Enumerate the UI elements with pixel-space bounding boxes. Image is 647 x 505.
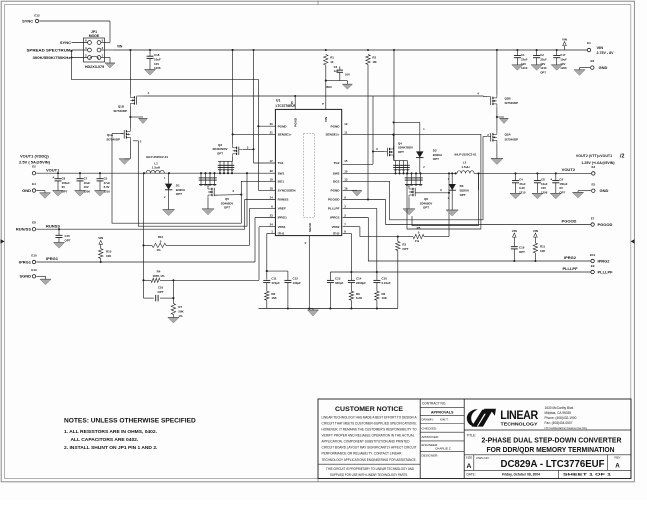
svg-text:LINEAR: LINEAR [500,408,538,422]
svg-text:VOUT1: VOUT1 [46,167,60,172]
svg-text:VREF: VREF [278,207,286,211]
svg-text:B320A: B320A [176,188,186,192]
svg-text:OPT: OPT [224,206,230,210]
svg-text:GND: GND [599,65,608,70]
svg-text:OPT: OPT [402,247,408,251]
svg-text:THIS CIRCUIT IS PROPRIETARY TO: THIS CIRCUIT IS PROPRIETARY TO LINEAR TE… [326,467,415,471]
svg-text:6.3V: 6.3V [519,186,525,190]
svg-text:PGND: PGND [331,189,341,193]
svg-text:E6: E6 [590,59,594,63]
svg-text:22: 22 [270,169,274,173]
svg-text:DRAWN:: DRAWN: [422,418,434,422]
svg-text:SW2: SW2 [333,172,340,176]
svg-text:APPROVED:: APPROVED: [422,435,440,439]
svg-text:25: 25 [290,101,294,105]
svg-text:PGOOD: PGOOD [598,222,613,227]
svg-text:10uF: 10uF [541,182,548,186]
svg-text:C14: C14 [356,276,362,280]
svg-text:+: + [52,175,54,179]
svg-text:1210: 1210 [540,66,547,70]
svg-text:SIZE: SIZE [466,455,472,459]
svg-text:PGND: PGND [294,117,298,127]
svg-text:E2: E2 [32,165,36,169]
svg-text:VOUT1 (VDDQ): VOUT1 (VDDQ) [20,153,49,158]
svg-text:Fax: (408)434-0507: Fax: (408)434-0507 [545,421,573,425]
svg-text:PLLLPF: PLLLPF [598,269,614,274]
svg-text:IPRG1: IPRG1 [19,259,32,264]
svg-text:TG2: TG2 [333,161,339,165]
svg-text:2.5V ( 5A@5VIN): 2.5V ( 5A@5VIN) [19,160,51,165]
svg-text:PGND: PGND [331,124,341,128]
svg-text:OPT: OPT [398,150,404,154]
svg-text:C19: C19 [519,246,525,250]
svg-text:R6: R6 [382,292,386,296]
svg-text:1.5uH: 1.5uH [152,166,160,170]
svg-text:SW1: SW1 [278,171,285,175]
svg-text:1.5uH: 1.5uH [461,165,469,169]
svg-text:TECHNOLOGY APPLICATIONS ENGINE: TECHNOLOGY APPLICATIONS ENGINEERING FOR … [322,458,417,462]
svg-text:VIN: VIN [533,229,538,233]
svg-text:22uF: 22uF [540,57,547,61]
svg-text:CHECKED:: CHECKED: [422,426,438,430]
svg-text:10uF: 10uF [84,181,91,185]
svg-text:SPREAD SPECTRUM: SPREAD SPECTRUM [27,47,72,52]
svg-text:VFB1: VFB1 [278,225,286,229]
svg-text:VIN: VIN [117,44,123,48]
svg-text:C13: C13 [335,276,341,280]
svg-text:R2: R2 [372,56,376,60]
svg-text:6.2K: 6.2K [356,296,363,300]
svg-text:15: 15 [344,159,348,163]
svg-text:C10: C10 [382,276,388,280]
svg-text:VIN: VIN [324,116,328,122]
svg-text:E13: E13 [31,268,37,272]
svg-text:E7: E7 [591,216,595,220]
svg-text:47uF: 47uF [519,182,526,186]
svg-text:IPRG2: IPRG2 [598,258,611,263]
svg-text:APPLICATION. COMPONENT SUBSTIT: APPLICATION. COMPONENT SUBSTITUTION AND … [322,440,411,444]
svg-text:0.01uF: 0.01uF [382,281,391,285]
svg-text:RUN/SS: RUN/SS [16,227,31,232]
svg-text:11: 11 [344,130,347,134]
svg-text:1206: 1206 [560,66,567,70]
svg-text:OPT: OPT [65,239,71,243]
svg-text:2. INSTALL SHUNT ON JP1 PIN 1: 2. INSTALL SHUNT ON JP1 PIN 1 AND 2. [64,445,158,451]
svg-text:C9: C9 [559,177,563,181]
svg-text:SGND: SGND [308,222,312,232]
svg-text:10V: 10V [84,185,89,189]
svg-text:2.75V - 8V: 2.75V - 8V [597,51,615,55]
svg-text:1uF: 1uF [334,69,339,73]
svg-text:VIN: VIN [512,229,517,233]
svg-text:16: 16 [344,186,348,190]
svg-text:PLLLPF: PLLLPF [328,207,340,211]
svg-text:CUSTOMER NOTICE: CUSTOMER NOTICE [335,407,403,413]
svg-text:SENSE1+: SENSE1+ [278,133,292,137]
svg-text:OPT: OPT [519,250,525,254]
svg-text:330pF: 330pF [335,281,344,285]
svg-text:DWG NO.: DWG NO. [477,456,490,460]
svg-text:14: 14 [270,196,274,200]
svg-text:LTC Confidential-For Customer: LTC Confidential-For Customer Use Only [545,427,588,430]
svg-text:E3: E3 [591,165,595,169]
svg-text:PERFORMANCE OR RELIABILITY. C: PERFORMANCE OR RELIABILITY. CONTACT LINE… [322,452,403,456]
svg-text:D2: D2 [433,148,437,152]
svg-text:D1: D1 [176,183,180,187]
svg-text:E11: E11 [590,253,596,257]
svg-text:1%: 1% [156,248,161,252]
svg-text:IPRG2: IPRG2 [330,216,340,220]
svg-text:BG1: BG1 [278,180,285,184]
svg-text:6V: 6V [62,185,66,189]
svg-text:A: A [467,463,472,470]
svg-text:19: 19 [270,177,274,181]
svg-text:1%: 1% [415,239,420,243]
svg-text:CIRCUIT BOARD LAYOUT MAY SIGNI: CIRCUIT BOARD LAYOUT MAY SIGNIFICANTLY A… [322,446,417,450]
svg-text:21: 21 [270,130,274,134]
svg-text:0603: 0603 [325,85,332,89]
svg-text:Friday, October 08, 2004: Friday, October 08, 2004 [502,473,540,477]
svg-text:CIRCUIT THAT MEETS CUSTOMER-SU: CIRCUIT THAT MEETS CUSTOMER-SUPPLIED SPE… [322,421,417,425]
svg-text:DATE:: DATE: [467,473,476,477]
svg-text:1%: 1% [178,314,183,318]
svg-text:20: 20 [270,122,274,126]
svg-text:IHLP-2525CZ-01: IHLP-2525CZ-01 [146,155,168,159]
svg-text:18: 18 [270,186,274,190]
svg-text:Milpitas, CA 95035: Milpitas, CA 95035 [545,411,572,415]
svg-text:ITH1: ITH1 [278,232,285,236]
svg-text:VFB2: VFB2 [332,225,340,229]
svg-text:SI7540DP: SI7540DP [505,137,519,141]
svg-text:6V: 6V [559,186,563,190]
svg-text:SYNC/SSEN: SYNC/SSEN [278,189,297,193]
svg-text:59K: 59K [178,310,184,314]
svg-text:23: 23 [270,214,274,218]
svg-text:R12: R12 [158,235,164,239]
svg-text:2200pF: 2200pF [356,281,366,285]
svg-text:470pF: 470pF [271,281,280,285]
svg-text:10uF: 10uF [560,57,567,61]
svg-text:100uF: 100uF [62,181,70,185]
svg-text:E4: E4 [32,182,36,186]
svg-text:OPT: OPT [176,192,182,196]
svg-text:SI7540DP: SI7540DP [505,101,519,105]
svg-text:IPRG1: IPRG1 [46,256,59,261]
svg-text:SENSE2+: SENSE2+ [325,133,339,137]
svg-text:SI7540DP: SI7540DP [106,138,120,142]
svg-text:R4: R4 [157,269,161,273]
svg-text:E8: E8 [32,221,36,225]
svg-text:A: A [615,463,620,470]
svg-text:OPT: OPT [559,191,565,195]
svg-text:ITH2: ITH2 [333,232,340,236]
svg-text:SHEET 1 OF 1: SHEET 1 OF 1 [563,472,611,476]
svg-text:TITLE:: TITLE: [467,433,477,437]
svg-text:E10: E10 [31,254,37,258]
svg-text:VOUT2 (VTT)=VOUT1: VOUT2 (VTT)=VOUT1 [576,154,612,158]
svg-text:GND: GND [22,188,31,193]
svg-text:1206: 1206 [84,190,91,194]
svg-text:FOR DDR/QDR MEMORY TERMINATION: FOR DDR/QDR MEMORY TERMINATION [487,445,615,454]
svg-text:/2: /2 [620,154,624,160]
svg-text:24: 24 [270,223,274,227]
svg-text:LINEAR TECHNOLOGY HAS MADE A B: LINEAR TECHNOLOGY HAS MADE A BEST EFFORT… [322,415,418,419]
svg-text:2-PHASE DUAL STEP-DOWN CONVERT: 2-PHASE DUAL STEP-DOWN CONVERTER [482,436,623,445]
svg-text:NOTES: UNLESS OTHERWISE SPECI: NOTES: UNLESS OTHERWISE SPECIFIED [64,418,196,425]
svg-text:PGOOD: PGOOD [562,218,577,223]
svg-text:IHLP-2525CZ-01: IHLP-2525CZ-01 [454,153,476,157]
svg-text:SI7540DP: SI7540DP [113,109,127,113]
svg-text:E9: E9 [591,264,595,268]
svg-text:VIN: VIN [98,236,103,240]
svg-text:HD2X3-079: HD2X3-079 [85,65,104,69]
svg-text:OPT: OPT [217,151,223,155]
svg-text:15K: 15K [271,296,277,300]
svg-text:10: 10 [330,60,334,64]
svg-text:E12: E12 [34,14,40,18]
svg-text:C6: C6 [62,176,66,180]
svg-text:300K/550K/750KHz: 300K/550K/750KHz [33,55,71,60]
svg-text:D3: D3 [460,184,464,188]
svg-text:GND: GND [600,188,609,193]
svg-text:1630 McCarthy Blvd.: 1630 McCarthy Blvd. [545,406,575,410]
svg-text:150uF: 150uF [559,182,567,186]
svg-text:OPT: OPT [460,193,466,197]
svg-text:OPT: OPT [158,290,164,294]
svg-text:C5: C5 [104,176,108,180]
svg-text:SUPPLIED FOR USE WITH LINEAR T: SUPPLIED FOR USE WITH LINEAR TECHNOLOGY … [330,473,408,477]
svg-text:E5: E5 [591,183,595,187]
svg-text:DC829A - LTC3776EUF: DC829A - LTC3776EUF [501,459,605,470]
svg-text:187K 1%: 187K 1% [153,274,165,278]
svg-text:Q1B: Q1B [118,105,125,109]
svg-text:OPT: OPT [423,206,429,210]
svg-text:SGND: SGND [19,274,31,279]
svg-text:L2: L2 [463,160,467,164]
svg-text:100pF: 100pF [293,281,302,285]
svg-text:1206: 1206 [541,191,548,195]
svg-text:R11: R11 [540,245,546,249]
svg-text:SYNC: SYNC [60,40,71,45]
svg-text:C17: C17 [560,53,566,57]
svg-text:6.3V: 6.3V [104,185,110,189]
svg-text:VIN: VIN [562,37,567,41]
svg-text:22uF: 22uF [521,57,528,61]
svg-text:R8: R8 [271,292,275,296]
svg-text:APPROVALS: APPROVALS [431,410,454,414]
svg-text:B320A: B320A [433,153,443,157]
svg-text:10: 10 [344,169,348,173]
svg-text:BG2: BG2 [333,180,340,184]
svg-text:C12: C12 [293,276,299,280]
svg-text:1206: 1206 [154,66,161,70]
svg-text:13: 13 [344,177,348,181]
svg-text:TECHNOLOGY: TECHNOLOGY [501,422,539,428]
svg-text:1210: 1210 [521,66,528,70]
svg-text:1. ALL RESISTORS ARE IN OHMS,: 1. ALL RESISTORS ARE IN OHMS, 0402. [64,429,158,435]
svg-text:B320A: B320A [460,189,470,193]
svg-text:CHARLIE Z.: CHARLIE Z. [435,447,452,451]
svg-text:10V: 10V [541,186,546,190]
svg-text:10K: 10K [106,254,112,258]
svg-text:17: 17 [270,159,274,163]
svg-text:C8: C8 [541,177,545,181]
svg-text:RUNSS: RUNSS [278,198,289,202]
svg-text:+: + [550,177,552,181]
svg-text:47uF: 47uF [104,181,111,185]
svg-text:R1: R1 [330,55,334,59]
svg-text:R3: R3 [402,243,406,247]
svg-text:1.25V (+/-6A@5VIN): 1.25V (+/-6A@5VIN) [581,161,615,165]
svg-text:1210: 1210 [104,190,111,194]
svg-text:R9: R9 [356,292,360,296]
svg-text:C11: C11 [271,276,277,280]
svg-text:U1: U1 [276,98,280,102]
svg-text:10V: 10V [560,62,565,66]
svg-text:1M: 1M [372,60,377,64]
svg-text:VIN: VIN [597,45,604,50]
svg-text:C7: C7 [84,176,88,180]
svg-text:VOUT2: VOUT2 [562,167,576,172]
svg-text:C15: C15 [65,234,71,238]
svg-text:12: 12 [344,122,348,126]
svg-text:HOWEVER, IT REMAINS THE CUSTOM: HOWEVER, IT REMAINS THE CUSTOMER'S RESPO… [322,428,417,432]
svg-text:E1: E1 [587,41,591,45]
svg-text:C16: C16 [158,286,164,290]
svg-text:KIM T.: KIM T. [440,418,449,422]
svg-text:R10: R10 [106,250,112,254]
svg-text:10V: 10V [345,72,350,76]
svg-text:10K: 10K [540,249,546,253]
svg-text:1210: 1210 [519,191,526,195]
svg-text:VERIFY PROPER AND RELIABLE OPE: VERIFY PROPER AND RELIABLE OPERATION IN … [322,434,415,438]
svg-text:SYNC: SYNC [22,18,33,23]
svg-text:10K: 10K [382,296,388,300]
svg-text:DESIGNER:: DESIGNER: [422,454,439,458]
svg-text:RUNSS: RUNSS [46,223,60,228]
svg-text:R7: R7 [178,305,182,309]
svg-text:C1: C1 [521,53,525,57]
svg-text:PLLLPF: PLLLPF [562,266,578,271]
svg-text:C4: C4 [519,177,523,181]
svg-text:C2: C2 [540,53,544,57]
svg-text:CONTRACT NO.: CONTRACT NO. [422,402,446,406]
svg-text:PGOOD: PGOOD [328,198,340,202]
svg-text:PGND: PGND [278,124,288,128]
svg-text:Q2A: Q2A [505,133,512,137]
svg-text:Phone: (408)432-1900: Phone: (408)432-1900 [545,416,577,420]
svg-text:REV: REV [615,455,621,459]
svg-text:10V: 10V [521,62,526,66]
svg-text:OPT: OPT [540,71,546,75]
svg-text:OPT: OPT [433,157,439,161]
svg-text:TG1: TG1 [278,161,284,165]
svg-text:Q2B: Q2B [505,96,512,100]
svg-text:ALL CAPACITORS ARE 0402.: ALL CAPACITORS ARE 0402. [71,437,139,443]
svg-text:10V: 10V [540,62,545,66]
svg-text:IPRG2: IPRG2 [564,255,577,260]
svg-text:MODE: MODE [89,34,100,38]
svg-text:IPRG1: IPRG1 [278,216,288,220]
svg-text:OPT: OPT [62,190,68,194]
